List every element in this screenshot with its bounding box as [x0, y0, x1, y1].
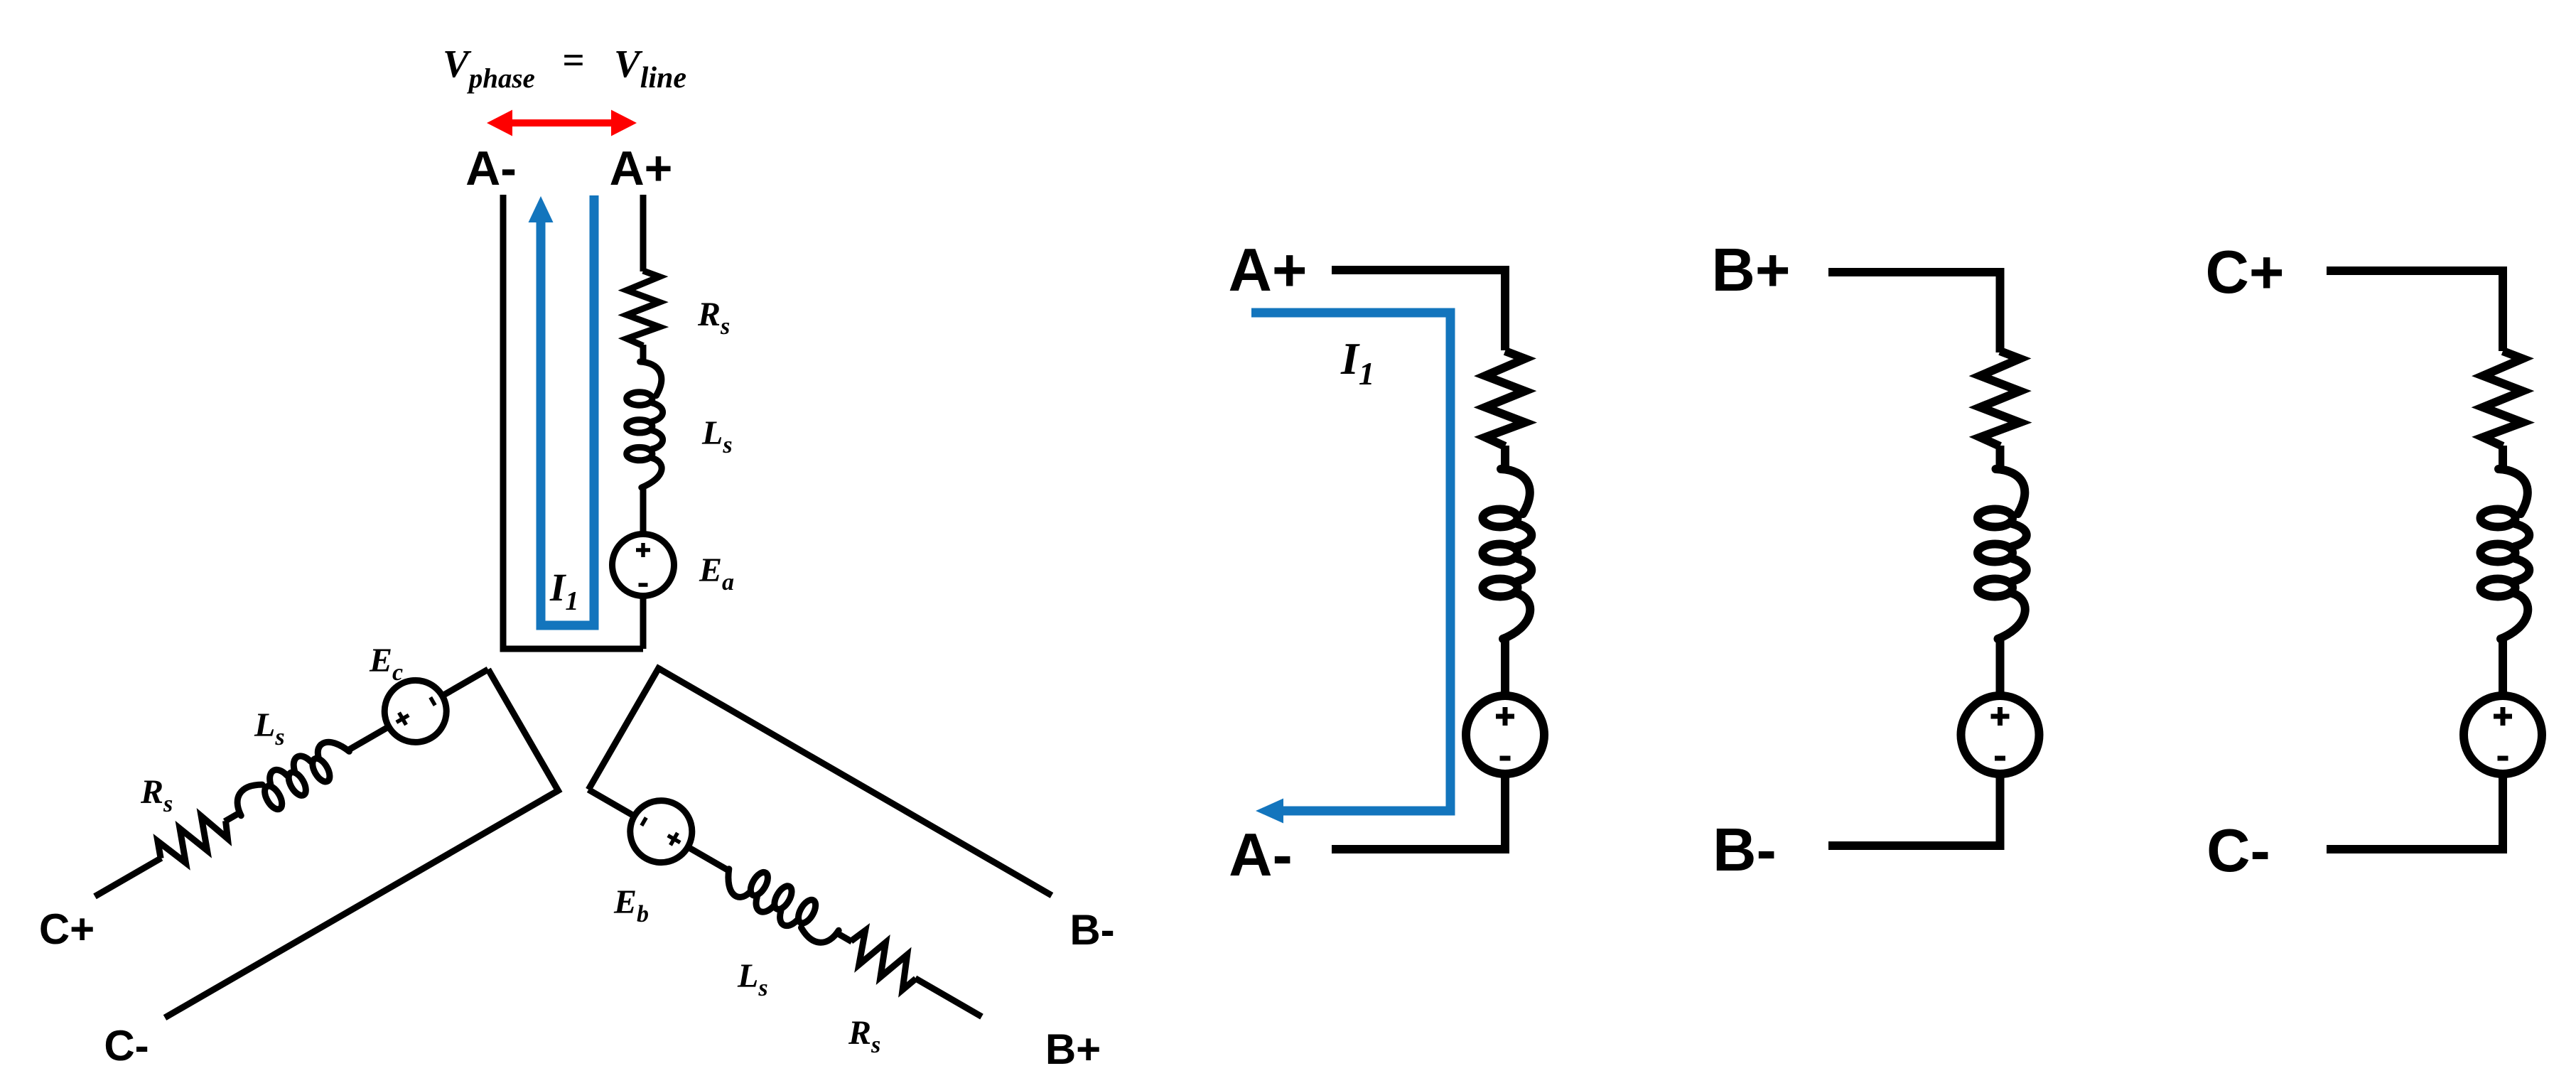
wire — [640, 486, 647, 536]
source (A right) — [1466, 696, 1544, 774]
current loop I1 (left, blue) — [541, 195, 594, 625]
wire phase B closed end — [588, 666, 660, 790]
wire B right bottom lead — [1828, 771, 2000, 846]
wire C right bottom lead — [2327, 771, 2503, 849]
wire phase B terminal lead — [915, 979, 982, 1017]
source (B right) — [1961, 696, 2039, 774]
wire — [686, 846, 730, 871]
wire — [1996, 638, 2005, 699]
source (C right) — [2464, 696, 2542, 774]
current path I1 (right, blue) — [1251, 313, 1450, 811]
wire — [1501, 446, 1509, 470]
svg-text:C-: C- — [104, 1022, 149, 1070]
resistor Rs (C right) — [2483, 351, 2523, 446]
source E (phase A) — [613, 534, 674, 596]
wire — [347, 726, 391, 750]
inductor Ls (A right) — [1483, 469, 1532, 639]
phase B winding (hairpin B- / B+) — [573, 666, 1053, 1044]
wire A right top lead — [1332, 270, 1505, 350]
wire phase C closed end — [488, 669, 560, 794]
svg-text:A+: A+ — [1228, 237, 1307, 304]
svg-text:B-: B- — [1069, 906, 1114, 954]
source E (phase B) — [619, 790, 704, 874]
wire — [2499, 446, 2507, 470]
inductor Ls (C right) — [2481, 469, 2530, 639]
svg-text:C+: C+ — [39, 905, 95, 953]
wire phase A closed end — [500, 646, 644, 652]
red double arrow Vphase = Vline — [487, 110, 637, 136]
svg-text:B-: B- — [1713, 817, 1777, 884]
resistor Rs (phase B) — [843, 927, 924, 993]
wire — [1996, 446, 2005, 470]
wire — [640, 595, 647, 649]
svg-text:B+: B+ — [1711, 237, 1790, 304]
svg-text:A-: A- — [465, 141, 517, 195]
wire phase C terminal lead — [95, 858, 162, 896]
svg-text:C-: C- — [2206, 817, 2270, 885]
wire — [225, 812, 240, 822]
resistor Rs (phase C) — [153, 807, 234, 873]
svg-text:B+: B+ — [1045, 1025, 1101, 1073]
resistor Rs (A right) — [1485, 351, 1525, 446]
wire phase C plain rail — [165, 791, 558, 1018]
wire phase A terminal lead — [640, 195, 647, 271]
phase C winding (hairpin C- / C+) — [80, 642, 560, 1020]
wire — [640, 345, 647, 362]
resistor Rs (phase A) — [627, 271, 659, 346]
wire — [441, 669, 488, 696]
inductor Ls (phase B) — [718, 856, 846, 950]
arrowhead I1 (left) — [529, 196, 554, 222]
wire — [836, 933, 852, 942]
wire — [588, 790, 635, 817]
wire — [2499, 638, 2507, 699]
phase A winding (hairpin A- / A+) — [500, 195, 674, 649]
inductor Ls (phase C) — [230, 733, 357, 827]
inductor Ls (B right) — [1978, 469, 2027, 639]
svg-text:A-: A- — [1229, 822, 1293, 889]
svg-text:A+: A+ — [610, 141, 673, 195]
inductor Ls (phase A) — [627, 362, 663, 488]
resistor Rs (B right) — [1980, 351, 2020, 446]
source E (phase C) — [373, 669, 458, 753]
svg-text:C+: C+ — [2205, 239, 2284, 306]
wire B right top lead — [1828, 272, 2000, 352]
arrowhead I1 (right) — [1256, 799, 1283, 824]
wire A right bottom lead — [1332, 771, 1505, 849]
wire — [1501, 638, 1509, 699]
wire phase B plain rail — [659, 669, 1052, 896]
wire phase A plain rail — [500, 195, 507, 649]
wire C right top lead — [2327, 271, 2503, 351]
